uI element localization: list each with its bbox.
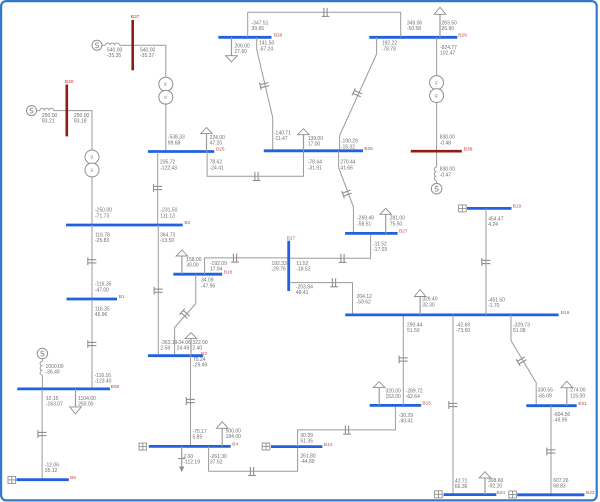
wire line B21-B22 — [550, 406, 552, 495]
bus B27 — [345, 229, 408, 235]
value label 500.00/184.00 — [226, 428, 242, 440]
external grid box at B22 — [509, 491, 517, 498]
bus B3 — [148, 351, 207, 357]
bus B21 — [526, 401, 587, 407]
value label -30.29/-90.41 — [399, 413, 413, 425]
bus B24 — [444, 490, 506, 496]
generator bar B38 — [411, 146, 473, 152]
transformer T B29-B38 — [430, 76, 444, 103]
breaker tick on line B21-B22 — [547, 448, 556, 456]
breaker tick on line B28-B29 — [322, 8, 330, 17]
svg-text:30.3951.35: 30.3951.35 — [300, 433, 313, 445]
svg-text:235.72-122.43: 235.72-122.43 — [160, 160, 177, 172]
svg-text:540.00-35.37: 540.00-35.37 — [140, 48, 156, 60]
svg-text:-30.29-90.41: -30.29-90.41 — [399, 413, 413, 425]
svg-text:B1: B1 — [119, 294, 125, 300]
value label 75.24/-29.49 — [193, 357, 207, 369]
bus B2 — [66, 220, 191, 226]
breaker tick on line B25-B2 — [154, 184, 163, 192]
wire line B16-B21 — [511, 315, 536, 406]
value label 34.09/-47.96 — [201, 278, 215, 290]
load at B27 — [380, 208, 392, 233]
value label -451.50/-1.70 — [488, 298, 505, 310]
breaker tick on line B15-B16 — [399, 356, 408, 364]
breaker tick on line B1-B39 — [88, 340, 97, 348]
value label 330.55/-65.09 — [538, 388, 554, 400]
wire generator G-B37 to transformer corner — [133, 45, 166, 77]
svg-text:#1: #1 — [90, 168, 94, 172]
svg-text:141.50-67.24: 141.50-67.24 — [259, 41, 275, 53]
load at B3 — [185, 333, 197, 356]
wire line B28-B29 — [248, 12, 401, 37]
value label -250.00/-71.73 — [95, 208, 112, 220]
svg-text:-11.52-17.03: -11.52-17.03 — [373, 242, 387, 254]
svg-text:#1: #1 — [164, 95, 168, 99]
bus B19 — [467, 204, 521, 210]
svg-text:274.00115.00: 274.00115.00 — [570, 388, 586, 400]
svg-text:B16: B16 — [561, 310, 570, 316]
external grid box at B14 — [262, 443, 270, 450]
svg-text:B3: B3 — [201, 351, 207, 357]
wire transformer to bus B2 — [91, 176, 93, 225]
value label -190.29/-15.32 — [341, 139, 358, 151]
value label 224.00/47.20 — [210, 135, 226, 147]
breaker tick on line B18-B3 — [180, 309, 192, 321]
value label -140.71/-11.47 — [274, 130, 291, 142]
bus B1 — [67, 294, 125, 300]
value label 290.44/51.50 — [407, 322, 423, 334]
breaker tick on line B2-B3 — [154, 287, 163, 295]
value label -78.44/-31.91 — [308, 160, 322, 172]
value label 12.15/-163.07 — [46, 396, 63, 408]
value label 141.50/-67.24 — [259, 41, 275, 53]
value label 329.40/32.30 — [422, 297, 438, 309]
wire line B17-B16 — [290, 283, 353, 315]
wire line B16-B24 — [452, 315, 454, 495]
value label 830.00/-0.48 — [440, 135, 456, 147]
value label 607.26/68.83 — [553, 478, 569, 490]
value label 158.00/30.00 — [186, 257, 202, 269]
bus B29 — [369, 33, 467, 39]
bus B39 — [17, 384, 119, 390]
value label 830.00/-0.47 — [440, 167, 456, 179]
value label 270.44/41.66 — [340, 160, 356, 172]
svg-text:34.09-47.96: 34.09-47.96 — [201, 278, 215, 290]
value label -604.56/-49.95 — [553, 412, 570, 424]
bus B16 — [345, 310, 570, 316]
svg-text:204.12-59.62: 204.12-59.62 — [357, 294, 373, 306]
bus B28 — [218, 33, 282, 39]
value label -289.72/-62.64 — [406, 389, 423, 401]
external grid box at B19 — [459, 205, 467, 212]
value label 11.52/-18.52 — [296, 261, 310, 273]
breaker tick on line B4-B14 — [248, 467, 256, 476]
svg-text:1104.00250.00: 1104.00250.00 — [78, 396, 96, 408]
svg-text:B25: B25 — [216, 147, 225, 153]
breaker tick on line B16-B24 — [449, 401, 458, 409]
bus B22 — [517, 490, 595, 496]
value label -269.49/-58.51 — [357, 216, 374, 228]
bus B18 — [173, 269, 232, 275]
wire line B19-B16 — [485, 208, 487, 315]
breaker tick on line B19-B16 — [482, 258, 491, 266]
value label 454.47/4.24 — [488, 216, 504, 228]
value label 2.00/-112.19 — [183, 454, 200, 466]
load at B21 — [561, 381, 573, 406]
svg-text:-42.69-73.50: -42.69-73.50 — [456, 322, 470, 334]
wire line B4-B14 — [209, 446, 298, 471]
breaker tick on line B28-B26 — [260, 80, 270, 90]
value label 261.80/-44.89 — [300, 453, 316, 465]
value label 235.72/-122.43 — [160, 160, 177, 172]
value label 204.12/-59.62 — [357, 294, 373, 306]
svg-text:B30: B30 — [65, 79, 74, 85]
value label 116.35/46.96 — [95, 306, 110, 318]
svg-text:B19: B19 — [513, 204, 522, 210]
value label -824.77/102.47 — [440, 45, 457, 57]
bus B25 — [148, 147, 225, 153]
wire line B25-B26 — [207, 151, 303, 177]
wire line B18-B3 — [175, 274, 196, 356]
svg-text:#1: #1 — [434, 81, 438, 85]
value label 42.71/66.36 — [455, 478, 468, 490]
svg-text:116.78-25.83: 116.78-25.83 — [95, 233, 110, 245]
svg-text:-12.0635.12: -12.0635.12 — [45, 463, 59, 475]
value label 250.00/83.18 — [74, 113, 90, 125]
wire line B29-B26 — [340, 37, 377, 151]
wire line B3-B4 — [190, 356, 192, 447]
wire line B1-B39 — [91, 299, 93, 389]
value label 540.00/-35.37 — [140, 48, 156, 60]
value label 116.78/-25.83 — [95, 233, 110, 245]
value label -12.06/35.12 — [45, 463, 59, 475]
svg-text:B38: B38 — [464, 146, 473, 152]
svg-text:B22: B22 — [586, 490, 595, 496]
value label -116.35/-47.00 — [95, 282, 112, 294]
value label 250.00/83.21 — [42, 113, 58, 125]
value label -538.33/99.68 — [168, 135, 185, 147]
bus B9 — [17, 475, 77, 481]
breaker tick on line B26-B27 — [342, 188, 353, 198]
svg-text:-78.44-31.91: -78.44-31.91 — [308, 160, 322, 172]
value label -203.84/48.41 — [296, 284, 313, 296]
bus B15 — [370, 401, 432, 407]
wire bus B29 to transformer B38 — [436, 37, 438, 75]
value label -261.30/37.52 — [210, 454, 227, 466]
svg-text:-824.77102.47: -824.77102.47 — [440, 45, 457, 57]
value label 540.00/-35.35 — [107, 48, 123, 60]
generator G at B37 — [92, 40, 131, 50]
breaker tick on line B14-B15 — [343, 426, 351, 435]
generator G at B38 — [431, 153, 442, 195]
load at B24 — [479, 472, 491, 495]
load at B39 — [70, 389, 82, 414]
breaker tick on line B25-B26 — [253, 172, 261, 181]
load at B15 — [373, 382, 385, 406]
svg-text:500.00184.00: 500.00184.00 — [226, 428, 242, 440]
value label -42.69/-73.50 — [456, 322, 470, 334]
wire line B28-B26 — [257, 37, 273, 151]
value label -11.52/-17.03 — [373, 242, 387, 254]
bus B4 — [149, 442, 239, 448]
wire line B15-B16 — [402, 315, 404, 406]
breaker tick on line B27-B17 — [339, 254, 347, 263]
load at B4 — [216, 422, 228, 447]
svg-text:308.60-92.20: 308.60-92.20 — [488, 478, 504, 490]
svg-text:B15: B15 — [422, 401, 431, 407]
svg-text:320.00153.00: 320.00153.00 — [386, 389, 402, 401]
wire line B26-B27 — [339, 151, 354, 233]
wire line B14-B15 — [298, 405, 396, 446]
value label 206.00/27.60 — [235, 44, 251, 56]
wire line B18-B17 — [205, 258, 289, 274]
svg-text:75.24-29.49: 75.24-29.49 — [193, 357, 207, 369]
value label -329.73/51.08 — [513, 322, 530, 334]
svg-text:B4: B4 — [232, 442, 238, 448]
value label 308.60/-92.20 — [488, 478, 504, 490]
bus B17 (vertical) — [287, 236, 296, 291]
wire transformer to bar B38 — [436, 102, 438, 152]
wire line B2-B3 — [157, 225, 159, 356]
breaker tick on line B18-B17 — [231, 254, 239, 263]
transformer T B37-B25 — [159, 77, 173, 104]
value label -34.06/24.49 — [177, 340, 191, 352]
load at B16 — [414, 290, 426, 315]
svg-text:B27: B27 — [399, 229, 408, 235]
wire line B25-B2 — [157, 152, 159, 226]
svg-text:540.00-35.35: 540.00-35.35 — [107, 48, 123, 60]
external grid box at B4 — [139, 443, 147, 450]
value label 30.39/51.35 — [300, 433, 313, 445]
value label 78.62/-24.41 — [210, 160, 224, 172]
svg-text:B9: B9 — [70, 475, 76, 481]
generator G at B30 — [27, 106, 66, 116]
svg-text:-34.0624.49: -34.0624.49 — [177, 340, 191, 352]
breaker tick on line B17-B16 — [330, 278, 338, 287]
svg-text:B2: B2 — [184, 220, 190, 226]
bus B14 — [271, 442, 333, 448]
svg-text:#2: #2 — [434, 94, 438, 98]
value label -116.16/-123.40 — [95, 373, 112, 385]
breaker tick on line B29-B26 — [352, 88, 363, 99]
load at B28 — [226, 37, 238, 62]
svg-text:364.73-13.50: 364.73-13.50 — [160, 233, 176, 245]
generator G at B39 — [37, 348, 47, 389]
wire line B2-B1 — [91, 225, 93, 299]
value label 192.33/-29.76 — [272, 261, 288, 273]
generator bar B37 — [131, 14, 140, 70]
svg-text:B37: B37 — [131, 14, 140, 20]
svg-text:B39: B39 — [111, 384, 120, 390]
transformer T B30-B2 — [85, 150, 99, 177]
bus B26 — [264, 146, 373, 152]
value label 1104.00/250.00 — [78, 396, 96, 408]
wire generator G-B30 to transformer corner — [67, 111, 92, 150]
external grid box at B24 — [435, 491, 443, 498]
svg-text:261.80-44.89: 261.80-44.89 — [300, 453, 316, 465]
value label -192.09/17.94 — [210, 261, 227, 273]
svg-text:42.7166.36: 42.7166.36 — [455, 478, 468, 490]
value label 281.00/75.50 — [390, 216, 406, 228]
breaker tick on line B3-B4 — [186, 397, 195, 405]
svg-text:330.55-65.09: 330.55-65.09 — [538, 388, 554, 400]
wire line B27-B17 — [290, 233, 371, 258]
load at B25 — [201, 128, 213, 152]
value label -363.19/2.58 — [160, 340, 177, 352]
svg-text:B28: B28 — [274, 33, 283, 39]
load at B26 — [298, 129, 310, 151]
svg-text:B18: B18 — [224, 269, 233, 275]
value label -347.51/39.65 — [252, 21, 269, 33]
generator bar B30 — [65, 79, 74, 136]
svg-text:#2: #2 — [164, 82, 168, 86]
svg-text:78.62-24.41: 78.62-24.41 — [210, 160, 224, 172]
svg-text:B21: B21 — [578, 401, 587, 407]
svg-text:B14: B14 — [324, 442, 333, 448]
svg-text:192.22-78.78: 192.22-78.78 — [382, 41, 398, 53]
breaker tick on line B16-B21 — [516, 355, 527, 366]
wire line B39-B9 — [41, 389, 43, 480]
svg-text:B17: B17 — [287, 236, 296, 242]
svg-text:192.33-29.76: 192.33-29.76 — [272, 261, 288, 273]
svg-text:B29: B29 — [458, 33, 467, 39]
svg-text:#2: #2 — [90, 155, 94, 159]
external grid box at B9 — [8, 476, 16, 483]
load at B18 — [176, 250, 188, 274]
breaker tick on line B2-B1 — [88, 257, 97, 265]
value label -231.50/111.13 — [160, 208, 177, 220]
wire transformer to bus B25 — [165, 103, 167, 151]
shunt at B4 — [178, 446, 185, 472]
value label 274.00/115.00 — [570, 388, 586, 400]
value label 349.06/-50.58 — [407, 21, 423, 33]
load at B29 — [434, 7, 446, 37]
value label 320.00/153.00 — [386, 389, 402, 401]
value label 283.50/26.90 — [442, 21, 458, 33]
value label -75.17/5.85 — [193, 429, 207, 441]
svg-text:B24: B24 — [497, 490, 506, 496]
svg-text:B26: B26 — [364, 146, 373, 152]
value label 1000.00/-36.49 — [46, 364, 64, 376]
breaker tick on line B39-B9 — [38, 430, 47, 438]
value label 364.73/-13.50 — [160, 233, 176, 245]
value label 192.22/-78.78 — [382, 41, 398, 53]
value label 322.00/2.40 — [192, 340, 208, 352]
svg-text:349.06-50.58: 349.06-50.58 — [407, 21, 423, 33]
value label 139.00/17.00 — [308, 136, 324, 148]
svg-text:-116.16-123.40: -116.16-123.40 — [95, 373, 112, 385]
